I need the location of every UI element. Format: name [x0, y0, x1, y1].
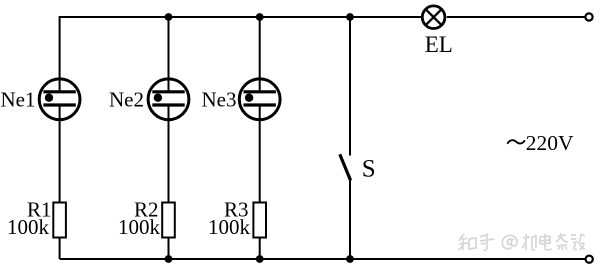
junction dot bottom Ne3 — [256, 255, 264, 263]
wire switch branch bottom — [349, 180, 351, 259]
char tan — [571, 234, 585, 250]
char dian — [540, 234, 552, 250]
char za — [556, 233, 568, 250]
junction dot bottom switch — [346, 255, 354, 263]
svg-text:Ne3: Ne3 — [202, 88, 237, 112]
neon lamp Ne1 — [39, 79, 80, 120]
char at — [502, 235, 517, 248]
junction dot bottom Ne2 — [165, 255, 173, 263]
terminal bottom right — [586, 256, 593, 263]
svg-text:S: S — [362, 156, 376, 183]
switch S blade — [340, 154, 351, 180]
wire bottom bus — [60, 258, 586, 260]
svg-text:100k: 100k — [118, 215, 161, 239]
junction dot top Ne3 — [256, 13, 264, 21]
svg-text:100k: 100k — [7, 215, 50, 239]
wire Ne3 branch top — [259, 17, 261, 92]
label ~220V tilde — [507, 140, 525, 144]
resistor R1 — [53, 203, 66, 238]
wire Ne3 branch bottom — [259, 105, 261, 259]
svg-text:220V: 220V — [526, 131, 574, 155]
svg-text:100k: 100k — [208, 215, 251, 239]
watermark zhihu — [458, 233, 585, 250]
wire Ne1 branch inner — [59, 105, 61, 259]
junction dot top switch — [346, 13, 354, 21]
resistor R2 — [162, 203, 175, 238]
wire Ne2 branch bottom — [168, 105, 170, 259]
terminal top right — [585, 13, 592, 20]
lamp EL — [422, 6, 445, 29]
wire top bus left segment — [60, 17, 421, 92]
svg-text:Ne2: Ne2 — [109, 88, 144, 112]
neon lamp Ne2 — [148, 79, 189, 120]
neon lamp Ne3 — [239, 79, 280, 120]
wire top bus right segment — [447, 16, 586, 18]
svg-text:EL: EL — [425, 32, 453, 57]
char zhi — [458, 234, 476, 250]
svg-text:Ne1: Ne1 — [1, 88, 36, 112]
char ji — [522, 234, 536, 250]
wire Ne2 branch top — [168, 17, 170, 92]
char hu — [480, 234, 494, 250]
junction dot top Ne2 — [165, 13, 173, 21]
wire switch branch top — [349, 17, 351, 156]
resistor R3 — [253, 203, 266, 238]
